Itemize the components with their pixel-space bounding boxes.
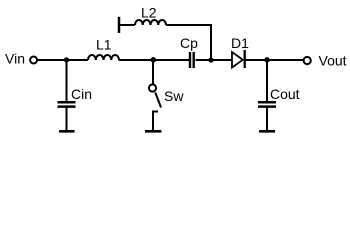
svg-text:L2: L2 (141, 5, 157, 21)
svg-text:Cout: Cout (270, 86, 300, 102)
svg-text:Vin: Vin (5, 51, 25, 67)
svg-text:D1: D1 (231, 35, 249, 51)
svg-text:Cp: Cp (180, 35, 198, 51)
svg-text:Vout: Vout (319, 53, 347, 69)
svg-text:Cin: Cin (71, 86, 92, 102)
svg-text:Sw: Sw (164, 88, 184, 104)
svg-text:L1: L1 (96, 37, 112, 53)
